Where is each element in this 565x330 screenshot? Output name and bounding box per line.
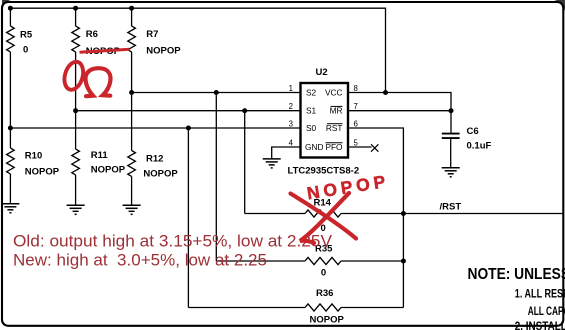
svg-text:NOPOP: NOPOP	[91, 164, 126, 175]
svg-text:NOPOP: NOPOP	[25, 166, 60, 177]
junction S2/R7-R12	[129, 90, 134, 95]
svg-text:S1: S1	[306, 106, 317, 116]
resistor R14	[305, 210, 341, 217]
svg-text:0: 0	[23, 44, 28, 55]
svg-text:0: 0	[321, 267, 326, 278]
red X cross over R14 stroke 2	[300, 193, 349, 243]
svg-text:2: 2	[289, 102, 293, 111]
svg-text:U2: U2	[316, 67, 328, 78]
svg-text:6: 6	[354, 120, 358, 129]
dark corner artifact top-left	[0, 0, 11, 11]
svg-text:Old: output high at 3.15+5%, l: Old: output high at 3.15+5%, low at 2.25…	[13, 232, 333, 251]
svg-text:LTC2935CTS8-2: LTC2935CTS8-2	[288, 166, 360, 177]
junction S2/dropper	[214, 90, 219, 95]
wire R10 bottom to ground	[9, 174, 11, 204]
ground under C6	[442, 168, 460, 177]
svg-text:8: 8	[354, 84, 358, 93]
svg-text:NOPOP: NOPOP	[310, 315, 345, 326]
svg-text:7: 7	[354, 102, 358, 111]
wire RST pin 6 row	[348, 128, 403, 308]
svg-text:NOTE: UNLESS OTHERWISE SPECIFI: NOTE: UNLESS OTHERWISE SPECIFIED	[468, 266, 565, 283]
wire dropper S1 node to R14	[244, 111, 246, 214]
svg-text:VCC: VCC	[325, 87, 343, 97]
junction S0/dropper	[186, 126, 191, 131]
resistor R6	[72, 26, 80, 52]
ground under R11	[67, 205, 85, 214]
wire R35 left	[216, 260, 305, 262]
svg-text:R10: R10	[25, 150, 42, 161]
wire S0 node to R10 top	[9, 128, 11, 148]
wire PFO pin 5 stub	[348, 146, 372, 148]
red handwritten ohm symbol	[86, 68, 111, 96]
capacitor C6 plates	[442, 133, 460, 135]
svg-text:R12: R12	[146, 153, 163, 164]
wire R11 bottom to ground	[75, 175, 77, 205]
wire GND pin 4 stub	[272, 147, 301, 159]
svg-text:S0: S0	[306, 123, 317, 133]
junction rail/R6	[73, 6, 78, 11]
svg-text:R7: R7	[146, 29, 158, 40]
svg-text:S2: S2	[306, 87, 317, 97]
wire MR pin 7 row	[348, 110, 451, 112]
svg-text:MR: MR	[330, 106, 343, 116]
wire S2 node to R12 top	[131, 93, 133, 151]
red strikethrough on R6 NOPOP	[80, 49, 130, 52]
svg-text:0.1uF: 0.1uF	[467, 141, 492, 152]
junction rail/R7	[129, 6, 134, 11]
wire /RST net R14 right to border	[341, 213, 564, 215]
resistor R12	[128, 151, 136, 177]
wire dropper S2 node to R35	[215, 93, 217, 262]
wire S1 node to R11 top	[75, 111, 77, 149]
wire C6 bottom to ground	[450, 139, 452, 168]
wire S2 row to pin 1	[132, 92, 301, 94]
junction rail/R5	[8, 6, 13, 11]
wire R7 column top stub	[131, 8, 133, 26]
svg-text:RST: RST	[326, 123, 343, 133]
red handwritten 0 of 0ohm	[61, 60, 86, 92]
junction VCC rail/pin8	[383, 90, 388, 95]
no-connect X on pin 5	[371, 144, 378, 151]
junction RST net/R35	[401, 259, 406, 264]
svg-text:5: 5	[354, 139, 359, 148]
op-amp U2 IC body	[301, 83, 349, 158]
ground under R12	[123, 205, 141, 214]
red X cross over R14 stroke 1	[291, 194, 357, 239]
junction S0/R5-R10	[8, 126, 13, 131]
wire R6 bottom to S1 row	[75, 52, 77, 111]
svg-text:R5: R5	[20, 29, 33, 40]
wire VCC pin 8 row	[348, 93, 451, 133]
svg-text:New: high at 3.0+5%, low at 2: New: high at 3.0+5%, low at 2.25	[13, 251, 267, 270]
svg-text:C6: C6	[467, 126, 479, 137]
wire R12 bottom to ground	[131, 176, 133, 205]
junction S1/R6-R11	[73, 108, 78, 113]
wire VCC top rail	[10, 8, 385, 92]
wire S0 row to pin 3	[10, 127, 300, 129]
svg-text:ALL CAPACITORS ARE: ALL CAPACITORS ARE	[528, 306, 565, 318]
wire S1 row to pin 2	[76, 110, 301, 112]
ground under R10	[1, 204, 19, 213]
wire R14 left	[245, 213, 305, 215]
resistor R35	[305, 257, 341, 264]
svg-text:GND: GND	[305, 142, 323, 152]
svg-text:1: 1	[289, 84, 293, 93]
svg-text:R11: R11	[91, 150, 109, 161]
wire R5 bottom to S0 row	[9, 52, 11, 128]
svg-text:PFO: PFO	[325, 142, 343, 152]
svg-text:R36: R36	[316, 288, 333, 299]
svg-text:4: 4	[289, 139, 294, 148]
wire R36 left	[188, 307, 305, 309]
resistor R5	[7, 26, 15, 52]
wire R35 right	[341, 260, 403, 262]
resistor R10	[7, 148, 15, 174]
resistor R7	[128, 26, 136, 52]
svg-text:NOPOP: NOPOP	[143, 168, 178, 179]
junction MR/C6	[449, 108, 454, 113]
ground at U2 pin 4	[263, 159, 281, 168]
svg-text:1. ALL RESISTORS ARE: 1. ALL RESISTORS ARE	[515, 288, 565, 300]
svg-text:R6: R6	[86, 29, 98, 40]
resistor R36	[305, 304, 341, 311]
wire R5 column top stub	[9, 8, 11, 26]
junction S1/dropper	[242, 108, 247, 113]
svg-text:NOPOP: NOPOP	[146, 45, 181, 56]
wire R36 right	[341, 307, 403, 309]
svg-text:/RST: /RST	[440, 201, 462, 212]
resistor R11	[72, 149, 80, 175]
wire dropper S0 node to R36	[187, 128, 189, 308]
wire R6 column top stub	[75, 8, 77, 26]
svg-text:3: 3	[289, 120, 293, 129]
wire R7 bottom to S2 row	[131, 52, 133, 93]
junction /RST-R14	[401, 211, 406, 216]
dark corner artifact top-right	[554, 0, 565, 11]
